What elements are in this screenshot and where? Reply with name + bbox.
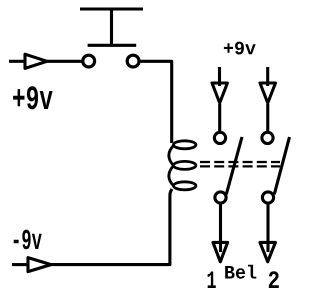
label +9v (bell supply) [224, 42, 256, 55]
wire: +9V arrow to pushbutton left contact [46, 60, 82, 63]
contact 2 top terminal [262, 132, 273, 143]
label Bel (bell) [225, 265, 256, 279]
wire: arrow to contact 2 top terminal [266, 104, 269, 131]
contact 2 bottom terminal [262, 192, 273, 203]
bell contact 1 feed stub [218, 67, 221, 86]
label 1 (bell terminal) [208, 272, 216, 289]
label +9v (left supply) [13, 86, 53, 109]
relay coil L1 [169, 141, 196, 190]
input terminal arrow +9V (left top) [9, 54, 47, 68]
pushbutton S1 right contact [127, 55, 139, 67]
label -9v (left supply) [14, 230, 42, 250]
wire: pushbutton right contact to relay coil top [140, 61, 172, 143]
bell contact 2 feed stub [266, 67, 269, 86]
wire: contact 2 bottom terminal to bell 2 arrow [266, 204, 269, 253]
input terminal arrow -9V (left bottom) [12, 258, 51, 272]
output arrow to bell terminal 1 [213, 242, 228, 261]
label 2 (bell terminal) [269, 271, 279, 288]
pushbutton S1 actuator [80, 9, 143, 45]
bell contact 1 down arrow [212, 83, 227, 103]
wire: relay coil bottom to -9V rail [50, 189, 172, 265]
contact 1 blade [226, 137, 242, 194]
bell contact 2 down arrow [260, 83, 276, 103]
output arrow to bell terminal 2 [260, 242, 275, 261]
pushbutton S1 left contact [83, 55, 95, 67]
contact 1 bottom terminal [215, 192, 226, 203]
contact 2 blade [274, 137, 289, 194]
contact 1 top terminal [214, 132, 225, 143]
mechanical link between coil and contacts (dashed) [200, 162, 280, 166]
wire: contact 1 bottom terminal to bell 1 arrow [219, 204, 222, 253]
wire: arrow to contact 1 top terminal [218, 104, 221, 131]
